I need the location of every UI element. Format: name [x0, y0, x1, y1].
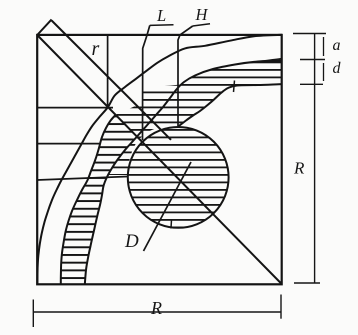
right dim tick a/d — [300, 59, 325, 61]
H leader line — [178, 26, 193, 126]
hatch region: circle D disc — [128, 127, 229, 228]
main diagonal — [37, 35, 282, 284]
svg-text:R: R — [293, 159, 305, 178]
grid vertical line — [107, 35, 109, 107]
D leader line — [144, 162, 192, 251]
hatch region: middle cluster between leaders/diagonal and arc B — [116, 85, 181, 137]
arc B double-stroke near right edge — [255, 59, 282, 62]
L leader line — [143, 25, 150, 140]
grid horizontal line 1 — [37, 107, 113, 109]
tick on circle bottom — [170, 220, 173, 229]
L underline bar — [150, 24, 174, 27]
arc C (third arc, ends at circle top) — [179, 84, 283, 126]
arc B (second arc, ladder right boundary) — [85, 60, 282, 284]
right dimension line R — [314, 34, 316, 284]
H underline bar — [193, 24, 210, 26]
svg-text:d: d — [333, 60, 342, 77]
tick on arc C — [234, 81, 235, 93]
bottom dim tick left — [32, 300, 34, 328]
circle D — [128, 127, 229, 228]
bottom dimension line R — [33, 311, 281, 313]
svg-text:r: r — [92, 38, 100, 60]
corner cap line of r-strip — [37, 19, 51, 35]
square plate outline — [37, 35, 282, 284]
right dim tick d end — [300, 83, 323, 85]
bottom dim tick right — [280, 295, 282, 319]
svg-text:D: D — [124, 231, 139, 252]
svg-text:H: H — [195, 5, 209, 24]
a/d secondary extent marks — [323, 37, 325, 56]
arc B2 (ladder left boundary) — [61, 115, 116, 285]
hatch region: channel between arc B and arc C / circle top-left — [109, 60, 283, 175]
grid horizontal line 2 — [37, 143, 100, 145]
right dim tick bottom — [294, 282, 320, 284]
svg-text:R: R — [150, 298, 162, 318]
svg-text:L: L — [156, 6, 166, 25]
grid horizontal line 3 — [37, 177, 128, 181]
offset diagonal (r-strip upper line) — [52, 21, 171, 140]
hatch region: ladder band between B2 and B — [61, 115, 138, 285]
svg-text:a: a — [333, 37, 341, 54]
right dim tick top — [293, 33, 326, 35]
arc A0 (outer quarter arc corner to corner) — [37, 35, 282, 284]
